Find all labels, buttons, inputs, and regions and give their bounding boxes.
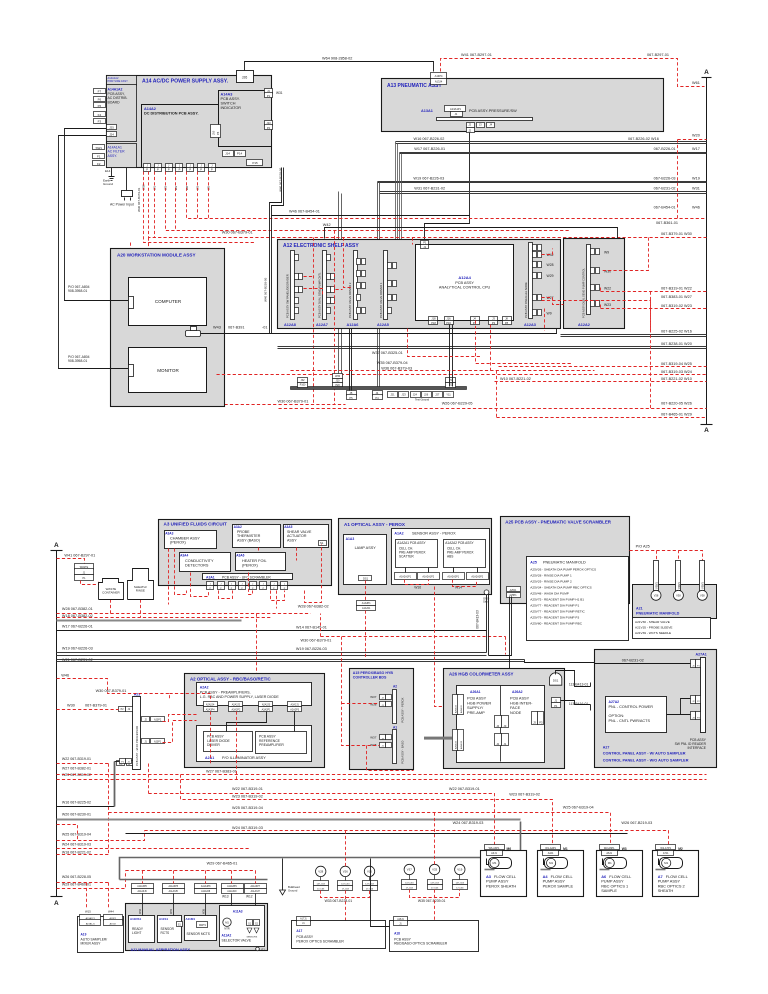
svg-text:V38/1: V38/1 xyxy=(701,582,705,589)
svg-text:P: P xyxy=(189,168,191,172)
svg-text:W14 067-B145-01: W14 067-B145-01 xyxy=(296,625,327,629)
dashed verticals from A14 bottom connectors xyxy=(154,172,156,238)
svg-text:W44: W44 xyxy=(108,910,114,914)
svg-text:W16 067-B226-02: W16 067-B226-02 xyxy=(414,137,445,141)
box A11S1 sensor rcts xyxy=(158,916,182,943)
svg-text:A21V39 - WCTS NEEDLE: A21V39 - WCTS NEEDLE xyxy=(635,631,671,635)
wire W24 black row xyxy=(126,833,628,835)
svg-text:J14: J14 xyxy=(225,151,230,155)
svg-text:A2 OPTICAL ASSY - RBC/BASO/RET: A2 OPTICAL ASSY - RBC/BASO/RETIC xyxy=(190,677,271,682)
dashed from lamp connector down to A15 xyxy=(365,611,367,659)
earth ground E14 xyxy=(111,168,113,177)
connectors on A12A3 with W labels xyxy=(533,245,537,251)
svg-text:W37: W37 xyxy=(370,695,377,699)
svg-text:A27A2: A27A2 xyxy=(609,700,620,704)
svg-text:E1: E1 xyxy=(262,947,266,951)
svg-text:W31: W31 xyxy=(692,187,700,191)
svg-text:A13A1P1: A13A1P1 xyxy=(450,107,462,111)
svg-text:CONTROL PANEL ASSY - W/O AUTO: CONTROL PANEL ASSY - W/O AUTO SAMPLER xyxy=(603,759,689,763)
dashed curve right side xyxy=(650,292,652,409)
box A3A5 shear valve actuator assy xyxy=(284,525,329,548)
svg-text:W9: W9 xyxy=(604,250,609,254)
svg-text:W19 067-B226-03: W19 067-B226-03 xyxy=(413,176,444,180)
card A12A5 PCB assy valve driver 1 xyxy=(384,251,388,320)
svg-text:PCB ASSY: PCB ASSY xyxy=(394,937,412,941)
svg-text:PCB ASSY: PCB ASSY xyxy=(455,281,474,285)
svg-text:M2: M2 xyxy=(678,847,683,851)
svg-text:SENSOR ASSY - PEROX: SENSOR ASSY - PEROX xyxy=(412,532,456,536)
svg-text:A12 ELECTRONIC SHELF ASSY: A12 ELECTRONIC SHELF ASSY xyxy=(283,243,359,249)
svg-text:MWT1: MWT1 xyxy=(199,924,207,927)
box A21 valve list xyxy=(633,618,711,639)
fuse F1 xyxy=(93,154,105,159)
switch S1 in shear valve assy xyxy=(319,541,327,546)
svg-text:A14 AC/DC POWER SUPPLY ASSY.: A14 AC/DC POWER SUPPLY ASSY. xyxy=(142,79,229,85)
svg-text:W12: W12 xyxy=(246,895,253,899)
svg-text:PNL - CONTROL POWER: PNL - CONTROL POWER xyxy=(609,705,654,709)
box A12A4 analytical control CPU xyxy=(416,245,514,321)
svg-text:W26 067-B219-03: W26 067-B219-03 xyxy=(621,821,652,825)
pump A6 flow cell assy xyxy=(597,851,643,897)
long dashed vertical left of A20 xyxy=(131,243,149,391)
svg-text:A2A1: A2A1 xyxy=(205,756,214,760)
valve V28 trio near A17 xyxy=(316,866,326,876)
wires 113-B413-01 right of A26 xyxy=(556,671,591,687)
svg-text:A20 WORKSTATION MODULE ASSY: A20 WORKSTATION MODULE ASSY xyxy=(117,253,196,258)
dashed wire W27 row right xyxy=(542,301,651,331)
box A3A2 probe thermister assy baso xyxy=(233,525,281,548)
wires from shelf bottom to J5 xyxy=(349,329,351,391)
svg-text:W23: W23 xyxy=(604,303,611,307)
svg-text:A1A3: A1A3 xyxy=(346,537,355,541)
svg-text:A11A3P7: A11A3P7 xyxy=(250,885,260,888)
svg-text:J: J xyxy=(273,583,274,585)
svg-text:PCB ASSY - UFC SCRAMBLER: PCB ASSY - UFC SCRAMBLER xyxy=(222,576,271,580)
svg-text:067-B221-02 W10: 067-B221-02 W10 xyxy=(661,377,692,381)
svg-text:J20: J20 xyxy=(336,379,341,382)
svg-text:A: A xyxy=(704,69,709,76)
svg-text:W18 067-B221-02: W18 067-B221-02 xyxy=(62,851,91,855)
wire from A12A4 J16 down to bar xyxy=(449,325,451,387)
svg-text:PNL - CNTL PWR/ACTS: PNL - CNTL PWR/ACTS xyxy=(609,719,651,723)
svg-text:F3: F3 xyxy=(98,120,102,124)
connectors J2 J3 J4 on A13 PCB xyxy=(467,123,475,128)
connector P15 xyxy=(247,160,263,166)
svg-text:Test Ground: Test Ground xyxy=(415,398,430,402)
card edge connector A26A1 left xyxy=(453,695,459,715)
svg-text:A: A xyxy=(54,542,59,549)
connector SW1 xyxy=(93,145,105,150)
svg-text:A3A5: A3A5 xyxy=(284,525,292,529)
svg-text:A25V29 - RINSE DIA PUMP 2: A25V29 - RINSE DIA PUMP 2 xyxy=(530,580,572,584)
svg-text:MIXER ASSY: MIXER ASSY xyxy=(81,942,102,946)
dashed feed to valve trio 2 xyxy=(434,813,436,865)
svg-text:A14A1A2: A14A1A2 xyxy=(108,88,123,92)
svg-text:W23 067-B319-02: W23 067-B319-02 xyxy=(232,794,263,798)
svg-text:J: J xyxy=(210,583,211,585)
svg-text:W17: W17 xyxy=(692,147,700,151)
svg-text:W2-A7P1: W2-A7P1 xyxy=(660,847,671,850)
dashed from A23P1 to A2 xyxy=(163,721,197,743)
svg-text:V38: V38 xyxy=(654,594,659,598)
svg-text:A1A2: A1A2 xyxy=(394,532,403,536)
svg-text:A11A4P8: A11A4P8 xyxy=(201,885,211,888)
box A1A2A1 pre-amp perox scatter xyxy=(396,540,438,568)
svg-text:067-B226-03: 067-B226-03 xyxy=(654,176,676,180)
dashed vertical to W10 row and W29 row xyxy=(496,371,498,418)
computer connector stub xyxy=(129,297,134,309)
svg-text:17-C63: 17-C63 xyxy=(456,887,464,889)
card A12A6 PCB assy valve driver 2 xyxy=(354,251,358,320)
dashed wire W22 row right xyxy=(601,291,707,293)
svg-text:A1A2A1P2: A1A2A1P2 xyxy=(422,575,434,578)
svg-text:W31 067-B231-02: W31 067-B231-02 xyxy=(414,187,445,191)
dashed wire W30 drop to A12A2 xyxy=(601,238,649,271)
svg-text:NODE: NODE xyxy=(510,710,522,715)
svg-text:A2A2P1: A2A2P1 xyxy=(262,709,271,712)
connector P1 J1 on A12A4 top xyxy=(421,241,429,245)
connector pairs under A2A2 xyxy=(204,702,218,707)
svg-text:J23: J23 xyxy=(402,393,407,397)
svg-text:W46 067-B454-01: W46 067-B454-01 xyxy=(289,209,320,213)
svg-text:BOARD: BOARD xyxy=(108,100,121,104)
svg-text:A15 PEROX/BASO HYB: A15 PEROX/BASO HYB xyxy=(353,671,394,675)
svg-text:V38: V38 xyxy=(676,594,681,598)
svg-text:SHEAR VALVE: SHEAR VALVE xyxy=(287,530,312,534)
svg-text:A25V48 - WASH DIA PUMP: A25V48 - WASH DIA PUMP xyxy=(530,592,569,596)
svg-text:P5: P5 xyxy=(349,396,353,400)
svg-text:(PEROX): (PEROX) xyxy=(170,541,187,545)
box A11DS1 ready light xyxy=(129,916,155,943)
svg-text:-01: -01 xyxy=(262,326,268,330)
connector J1 P1 waste xyxy=(75,564,94,570)
svg-text:PCB ASSY.: PCB ASSY. xyxy=(221,97,240,101)
svg-text:M6: M6 xyxy=(507,847,512,851)
svg-text:A23: A23 xyxy=(134,692,141,696)
svg-text:OPTION:: OPTION: xyxy=(609,714,625,718)
block A26 HGB colormeter assy xyxy=(444,669,565,769)
wire from A13 J2 down to A12A4 xyxy=(425,133,470,245)
svg-text:067-B379-01 W30: 067-B379-01 W30 xyxy=(661,232,692,236)
svg-text:W25 067-B319-04: W25 067-B319-04 xyxy=(563,806,594,810)
svg-text:W22 067-B319-01: W22 067-B319-01 xyxy=(449,787,480,791)
svg-text:W19 067-B226-03: W19 067-B226-03 xyxy=(296,647,327,651)
svg-text:A13P4: A13P4 xyxy=(435,74,443,78)
svg-text:W16: W16 xyxy=(414,586,421,590)
svg-text:W38: W38 xyxy=(370,702,377,706)
svg-text:W27 067-B382-01: W27 067-B382-01 xyxy=(62,767,91,771)
dashed vertical junction left xyxy=(108,764,110,855)
wires from A25 connector down to A26 xyxy=(509,597,511,669)
computer box xyxy=(129,278,207,326)
svg-text:P: P xyxy=(146,168,148,172)
svg-text:P3: P3 xyxy=(492,321,496,325)
svg-text:A25V34 - SHEATH DIA PUMP RBC O: A25V34 - SHEATH DIA PUMP RBC OPTICS xyxy=(530,586,591,590)
svg-text:DRIVER: DRIVER xyxy=(207,743,220,747)
svg-text:W43: W43 xyxy=(213,326,221,330)
svg-text:F5: F5 xyxy=(98,104,102,108)
wire W29 dashed row left xyxy=(57,871,126,889)
svg-text:F4: F4 xyxy=(98,113,102,117)
connector pairs below UFC scrambler xyxy=(207,582,214,586)
svg-text:Ground: Ground xyxy=(288,888,298,892)
svg-text:A17J1: A17J1 xyxy=(300,918,307,921)
box A1A3 lamp assy xyxy=(344,535,387,585)
block A11 manual aspiration assy xyxy=(126,904,268,951)
connector A25J1 A25P1 xyxy=(507,587,521,592)
svg-text:W17 067-B226-01: W17 067-B226-01 xyxy=(414,147,445,151)
svg-text:W29 067-B465-01: W29 067-B465-01 xyxy=(207,862,238,866)
svg-text:W24 067-B319-03: W24 067-B319-03 xyxy=(453,821,484,825)
wire from J24 to monitor xyxy=(59,136,129,369)
waste container xyxy=(99,579,124,600)
svg-text:A12A4: A12A4 xyxy=(458,275,471,280)
svg-text:A25J1: A25J1 xyxy=(510,589,517,592)
svg-text:W42: W42 xyxy=(323,223,331,227)
block A14 AC/DC power supply assy xyxy=(107,76,272,168)
box reference preamplifier xyxy=(256,732,307,754)
wire W43 to shelf xyxy=(201,329,557,334)
svg-text:W41 067-B297-01: W41 067-B297-01 xyxy=(64,553,95,557)
svg-text:W35 067-B239-01: W35 067-B239-01 xyxy=(418,899,446,903)
svg-text:113-B413-01: 113-B413-01 xyxy=(569,682,588,686)
svg-text:PEROX OPTICS SCRAMBLER: PEROX OPTICS SCRAMBLER xyxy=(296,939,344,943)
svg-text:P1: P1 xyxy=(554,704,558,708)
svg-text:W16 067-B225-02: W16 067-B225-02 xyxy=(62,800,91,804)
svg-text:A2A2J2: A2A2J2 xyxy=(232,704,241,707)
svg-text:A17: A17 xyxy=(296,929,302,933)
connector on A27A1 top xyxy=(691,660,696,668)
svg-text:W25 067-B319-04: W25 067-B319-04 xyxy=(232,806,263,810)
svg-text:A2A2: A2A2 xyxy=(200,686,209,690)
svg-text:M1: M1 xyxy=(493,861,497,865)
svg-text:PCB ASSY: PCB ASSY xyxy=(296,935,314,939)
dashed wire row above shelf xyxy=(166,172,571,231)
dashed wire W30 top row xyxy=(149,172,707,238)
wires into A26 left xyxy=(424,737,452,740)
svg-text:W30: W30 xyxy=(67,704,75,708)
svg-text:W27 067-B383-01: W27 067-B383-01 xyxy=(206,769,237,773)
switch in A17 xyxy=(343,925,349,928)
dashed from lamp down xyxy=(365,581,367,601)
svg-text:A1A2A1P1: A1A2A1P1 xyxy=(399,575,411,578)
svg-text:J: J xyxy=(263,583,264,585)
dashed wire W24 row xyxy=(217,374,707,376)
svg-text:W30 067-B379-01: W30 067-B379-01 xyxy=(278,400,309,404)
valve V37 trio near A18 xyxy=(404,864,414,874)
svg-text:V38/1: V38/1 xyxy=(677,582,681,589)
svg-text:067-B391: 067-B391 xyxy=(228,326,244,330)
svg-text:J: J xyxy=(220,583,221,585)
wire bus W16 row xyxy=(396,141,707,143)
svg-text:RBC/BASO OPTICS SCRAMBLER: RBC/BASO OPTICS SCRAMBLER xyxy=(394,942,448,946)
pump A3 flow cell assy xyxy=(481,851,527,897)
box A11A2 selector valve xyxy=(220,906,265,947)
wire bus W31 row xyxy=(380,191,707,193)
svg-text:067-B361-01: 067-B361-01 xyxy=(656,221,678,225)
svg-text:A1A2A2P1: A1A2A2P1 xyxy=(447,575,459,578)
svg-text:ASSY (BASO): ASSY (BASO) xyxy=(237,539,260,543)
svg-text:P16: P16 xyxy=(446,321,451,325)
svg-text:DS1: DS1 xyxy=(553,679,559,683)
svg-text:A12A7: A12A7 xyxy=(316,323,328,327)
vertical drops from W19/W31 rows through shelf xyxy=(377,182,379,387)
svg-text:W15: W15 xyxy=(85,910,91,914)
dashed wire W23 row full xyxy=(57,779,707,781)
connector A13A1P1 J1 xyxy=(445,106,466,112)
block A1 optical assy perox xyxy=(339,519,492,595)
svg-text:113-B416-01: 113-B416-01 xyxy=(569,702,588,706)
svg-text:J26: J26 xyxy=(242,76,248,80)
svg-text:W46: W46 xyxy=(692,206,700,210)
svg-text:M1: M1 xyxy=(608,861,612,865)
connector J25 xyxy=(107,125,117,130)
block A14A1A2 pwr side assy header xyxy=(107,76,137,86)
dashed left of A15 xyxy=(342,637,380,746)
svg-text:W28 067-B382-02: W28 067-B382-02 xyxy=(298,605,329,609)
svg-text:A11A3J6: A11A3J6 xyxy=(137,890,147,893)
svg-text:908-3958-01: 908-3958-01 xyxy=(68,289,87,293)
svg-text:A25V80 - REAGENT DIA PUMP RBC: A25V80 - REAGENT DIA PUMP RBC xyxy=(530,622,582,626)
svg-text:COMPUTER: COMPUTER xyxy=(155,299,182,304)
svg-text:P: P xyxy=(179,168,181,172)
card A1 in A15 xyxy=(393,730,397,764)
connector J1/P1 right of A14A3 xyxy=(265,89,273,94)
card A23 PCB assy M I/O processor xyxy=(133,697,141,770)
dashed wire W26 row xyxy=(279,408,707,410)
svg-text:PREAMPLIFIER: PREAMPLIFIER xyxy=(259,743,284,747)
dashed linking valve trio 1 xyxy=(321,891,370,898)
svg-text:W26 067-B229-05: W26 067-B229-05 xyxy=(442,402,473,406)
svg-text:P3: P3 xyxy=(539,720,543,724)
dashed wire W46 row xyxy=(187,172,707,219)
connector A23P1 xyxy=(142,739,150,744)
wire into A18 from left xyxy=(371,859,390,927)
svg-text:067-B225-02 W16: 067-B225-02 W16 xyxy=(661,330,692,334)
svg-text:A23P1: A23P1 xyxy=(154,741,162,744)
svg-text:W29: W29 xyxy=(547,274,554,278)
vertical bus line to node A xyxy=(706,78,708,425)
svg-text:W18 067-B382-02: W18 067-B382-02 xyxy=(62,614,93,618)
svg-text:P20: P20 xyxy=(335,384,340,387)
svg-text:A26A2: A26A2 xyxy=(512,690,523,694)
svg-text:W25 067-B319-04: W25 067-B319-04 xyxy=(62,833,91,837)
block A20 workstation module assy xyxy=(111,249,225,407)
svg-text:067-B319-01 W22: 067-B319-01 W22 xyxy=(661,286,692,290)
svg-text:W30 067-B379-01: W30 067-B379-01 xyxy=(137,187,141,212)
svg-text:THERMISTER: THERMISTER xyxy=(237,534,261,538)
svg-text:W19: W19 xyxy=(692,176,700,180)
connector row J21-J27 below bar xyxy=(388,392,398,398)
svg-text:A12A6: A12A6 xyxy=(347,323,359,327)
connector J26 xyxy=(237,71,254,83)
connectors on A12A2 with W labels xyxy=(591,249,595,255)
box A1A2A2 pre-amp perox abs xyxy=(444,540,486,568)
svg-text:A: A xyxy=(704,427,709,434)
box A3A6 heater foil perox xyxy=(236,553,286,571)
svg-text:A2A2P3: A2A2P3 xyxy=(290,709,299,712)
wire W41 067-B297-01 dashed to node A xyxy=(441,59,705,87)
svg-text:A3A1: A3A1 xyxy=(206,576,215,580)
dashed vertical right of A23 xyxy=(170,694,211,702)
svg-text:INTERFACE: INTERFACE xyxy=(687,746,706,750)
svg-text:A11A3P9: A11A3P9 xyxy=(227,885,237,888)
connectors on A12A4 bottom xyxy=(429,317,438,321)
svg-text:CONTROL PANEL ASSY - W/ AUTO S: CONTROL PANEL ASSY - W/ AUTO SAMPLER xyxy=(603,752,686,756)
svg-text:A12A3: A12A3 xyxy=(524,323,536,327)
svg-text:A19J2: A19J2 xyxy=(110,922,117,925)
svg-text:W64 908-2858-02: W64 908-2858-02 xyxy=(322,57,352,61)
svg-text:A19A1J1: A19A1J1 xyxy=(86,922,96,925)
svg-text:A3A2: A3A2 xyxy=(234,525,242,529)
dashed hops between cards xyxy=(304,276,314,278)
svg-text:(PEROX): (PEROX) xyxy=(242,563,259,567)
svg-text:A1: A1 xyxy=(393,725,397,729)
svg-text:PCB ASSY VALVE DRIVER 1: PCB ASSY VALVE DRIVER 1 xyxy=(379,282,383,318)
gnd stud xyxy=(484,590,489,595)
svg-text:J24: J24 xyxy=(109,132,114,136)
svg-text:J21: J21 xyxy=(390,393,395,397)
svg-text:V38/1: V38/1 xyxy=(655,582,659,589)
wire bus W16 lower row xyxy=(561,334,707,336)
wires from pairs into A11 xyxy=(142,894,144,917)
valve V38 pneumatic 2 xyxy=(676,561,681,592)
sheath rinse container xyxy=(128,569,154,600)
wire bus W20 lower row xyxy=(278,346,707,348)
svg-text:067-B454-01: 067-B454-01 xyxy=(654,206,676,210)
svg-text:067-B379-01: 067-B379-01 xyxy=(85,704,107,708)
svg-text:PNEUMATIC MANIFOLD: PNEUMATIC MANIFOLD xyxy=(636,612,680,616)
svg-text:V38: V38 xyxy=(700,594,705,598)
dashed wire W29 row right xyxy=(497,417,707,419)
connectors J3 P3 right xyxy=(532,712,538,725)
svg-text:P/O A25: P/O A25 xyxy=(636,545,650,549)
svg-text:A14A3: A14A3 xyxy=(221,93,233,97)
svg-text:PRE-AMP: PRE-AMP xyxy=(467,710,485,715)
svg-text:067-B226-01: 067-B226-01 xyxy=(654,147,676,151)
svg-text:W6-A3P1: W6-A3P1 xyxy=(489,847,500,850)
lamp connector xyxy=(359,576,372,581)
dashed wire row entering shelf xyxy=(144,172,255,243)
svg-text:LAMP ASSY: LAMP ASSY xyxy=(355,546,377,550)
AC power input plug xyxy=(126,168,128,191)
svg-text:DS1: DS1 xyxy=(363,576,369,580)
svg-text:A3A3: A3A3 xyxy=(165,531,173,535)
svg-text:SCATTER: SCATTER xyxy=(399,555,414,559)
A14 bottom connector row J/P pairs xyxy=(144,164,151,168)
svg-text:W37: W37 xyxy=(370,736,377,740)
dashed from sensor down to A26 xyxy=(435,587,455,707)
vertical drops from W16/W17 rows into shelf xyxy=(395,142,397,261)
svg-text:W48: W48 xyxy=(139,908,142,914)
svg-text:F6: F6 xyxy=(98,98,102,102)
dashed wire W18 row xyxy=(57,617,271,619)
svg-text:067-B297-01: 067-B297-01 xyxy=(647,53,669,57)
switch in A18 xyxy=(431,925,438,929)
svg-text:W37 067-B325-01: W37 067-B325-01 xyxy=(372,351,403,355)
connector pair below lamp xyxy=(357,601,376,606)
svg-text:J32: J32 xyxy=(301,379,306,382)
svg-text:P6: P6 xyxy=(216,131,220,135)
svg-text:SELECTOR VALVE: SELECTOR VALVE xyxy=(222,938,252,942)
svg-text:17-C63: 17-C63 xyxy=(406,887,414,889)
svg-text:W30: W30 xyxy=(604,269,611,273)
svg-text:A7J1: A7J1 xyxy=(663,852,669,855)
connector J1 P1 A26 right xyxy=(552,698,561,703)
svg-text:A13A1: A13A1 xyxy=(421,109,433,113)
svg-text:W35 067-B379-04: W35 067-B379-04 xyxy=(377,361,408,365)
connector J14 P14 xyxy=(223,151,234,157)
